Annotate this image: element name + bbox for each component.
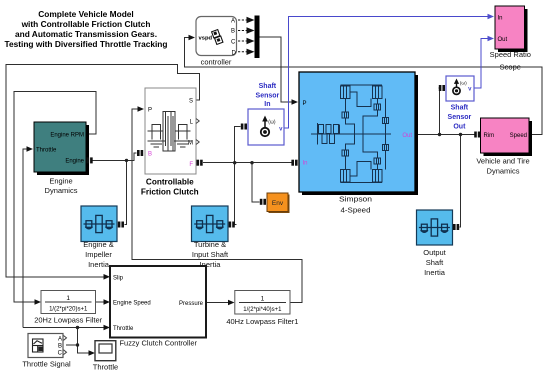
svg-text:Engine: Engine xyxy=(65,159,84,165)
svg-text:Input Shaft: Input Shaft xyxy=(192,250,229,259)
svg-text:Testing with Diversified Throt: Testing with Diversified Throttle Tracki… xyxy=(4,39,167,49)
svg-text:Turbine &: Turbine & xyxy=(194,240,226,249)
svg-text:Throttle: Throttle xyxy=(93,362,118,371)
svg-text:Complete Vehicle Model: Complete Vehicle Model xyxy=(38,9,134,19)
svg-text:Engine RPM: Engine RPM xyxy=(50,132,84,138)
svg-text:B: B xyxy=(231,29,235,35)
svg-text:Vehicle and Tire: Vehicle and Tire xyxy=(476,157,529,166)
svg-text:Engine Speed: Engine Speed xyxy=(113,300,151,306)
svg-text:vspd: vspd xyxy=(199,36,213,42)
svg-text:controller: controller xyxy=(201,58,232,67)
svg-text:Shaft: Shaft xyxy=(259,83,277,90)
svg-text:C: C xyxy=(58,351,63,357)
svg-text:(ω): (ω) xyxy=(268,120,276,126)
svg-text:B: B xyxy=(148,151,152,157)
svg-text:Simpson: Simpson xyxy=(339,194,372,203)
svg-text:20Hz Lowpass Filter: 20Hz Lowpass Filter xyxy=(34,316,102,325)
svg-text:1/(2*pi*40)s+1: 1/(2*pi*40)s+1 xyxy=(243,307,282,313)
svg-text:Speed: Speed xyxy=(510,133,527,139)
svg-text:Engine &: Engine & xyxy=(83,240,113,249)
svg-text:P: P xyxy=(303,101,307,107)
svg-text:Fuzzy Clutch Controller: Fuzzy Clutch Controller xyxy=(120,339,198,348)
svg-text:Throttle: Throttle xyxy=(113,326,134,332)
svg-text:4-Speed: 4-Speed xyxy=(341,205,371,214)
svg-text:Out: Out xyxy=(498,37,508,43)
svg-text:A: A xyxy=(58,336,62,342)
svg-text:Out: Out xyxy=(453,123,466,130)
svg-text:1/(2*pi*20)s+1: 1/(2*pi*20)s+1 xyxy=(49,307,88,313)
svg-text:Slip: Slip xyxy=(113,275,124,281)
svg-text:Sensor: Sensor xyxy=(448,114,472,121)
svg-text:In: In xyxy=(303,160,308,166)
svg-text:Dynamics: Dynamics xyxy=(45,186,78,195)
svg-text:Friction Clutch: Friction Clutch xyxy=(141,188,199,197)
svg-text:Controllable: Controllable xyxy=(146,177,194,186)
svg-text:Inertia: Inertia xyxy=(424,268,446,277)
svg-text:Output: Output xyxy=(423,248,446,257)
svg-text:Pressure: Pressure xyxy=(179,301,204,307)
svg-text:S: S xyxy=(189,98,193,104)
svg-text:1: 1 xyxy=(66,295,70,302)
svg-text:with Controllable Friction Clu: with Controllable Friction Clutch xyxy=(21,19,151,29)
svg-text:Sensor: Sensor xyxy=(256,93,280,100)
svg-text:Rim: Rim xyxy=(484,133,495,139)
svg-text:Inertia: Inertia xyxy=(88,260,110,269)
svg-text:D: D xyxy=(232,50,237,56)
svg-text:Out: Out xyxy=(402,133,412,139)
svg-text:Shaft: Shaft xyxy=(426,258,444,267)
svg-text:Engine: Engine xyxy=(49,177,72,186)
svg-text:In: In xyxy=(264,101,270,108)
svg-text:Throttle: Throttle xyxy=(36,147,57,153)
svg-text:40Hz Lowpass Filter1: 40Hz Lowpass Filter1 xyxy=(226,317,298,326)
svg-text:Scope: Scope xyxy=(500,62,521,71)
svg-text:A: A xyxy=(231,19,235,25)
svg-text:(ω): (ω) xyxy=(460,81,467,87)
svg-text:Throttle Signal: Throttle Signal xyxy=(22,360,71,369)
svg-text:Shaft: Shaft xyxy=(451,104,469,111)
svg-text:Dynamics: Dynamics xyxy=(487,167,520,176)
svg-text:and Automatic Transmission Gea: and Automatic Transmission Gears. xyxy=(15,29,157,39)
svg-text:F: F xyxy=(189,162,193,168)
svg-text:In: In xyxy=(498,15,503,21)
svg-text:P: P xyxy=(148,107,152,113)
svg-text:Impeller: Impeller xyxy=(85,250,112,259)
svg-text:Speed Ratio: Speed Ratio xyxy=(490,50,531,59)
svg-text:Env: Env xyxy=(272,200,284,207)
svg-text:C: C xyxy=(231,40,236,46)
svg-text:B: B xyxy=(58,343,62,349)
svg-text:1: 1 xyxy=(261,295,265,302)
